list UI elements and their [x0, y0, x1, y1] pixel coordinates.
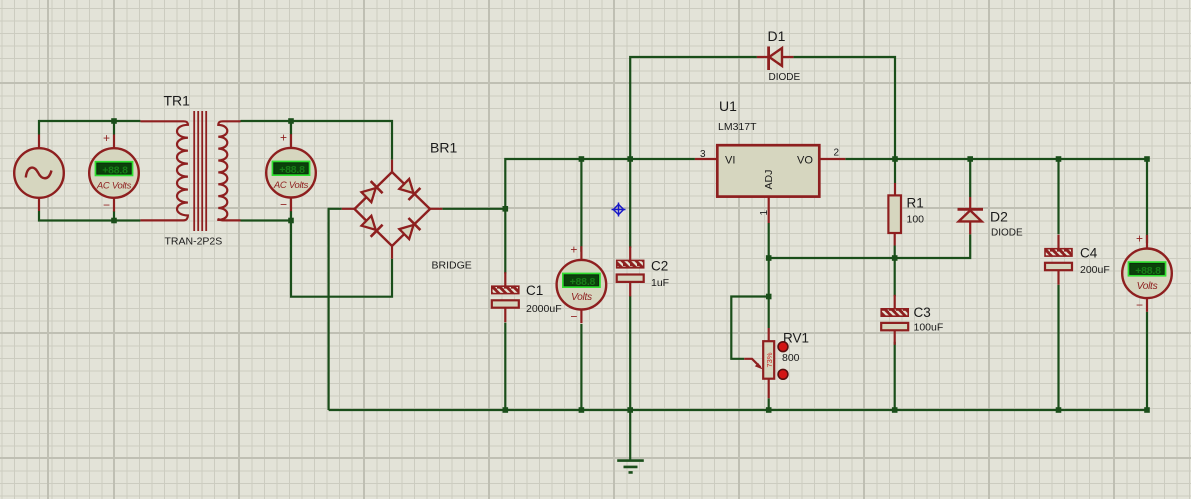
svg-text:200uF: 200uF: [1080, 264, 1110, 276]
svg-text:−: −: [280, 198, 287, 212]
junction: [111, 218, 117, 224]
wire: AC source bottom to transformer primary bottom: [39, 211, 140, 221]
wire: D2 top: [969, 159, 971, 197]
svg-text:VO: VO: [797, 155, 813, 167]
junction: [579, 156, 585, 162]
svg-text:C3: C3: [914, 305, 931, 320]
positive plate (hatched): [881, 309, 908, 316]
wire: ADJ rail to D2 bottom: [769, 234, 971, 258]
svg-text:+: +: [570, 243, 577, 257]
pins: [969, 197, 971, 234]
wire: C4 bottom: [1057, 285, 1059, 410]
junction: [503, 206, 509, 212]
capacitor C1: [492, 272, 562, 322]
LCD readout +88.8: [96, 162, 133, 175]
svg-text:C1: C1: [526, 283, 543, 298]
pin - (bottom): [113, 198, 115, 212]
potentiometer RV1: [744, 328, 809, 398]
body: [717, 145, 819, 196]
diode D2: [958, 197, 1024, 239]
svg-text:C4: C4: [1080, 246, 1098, 261]
pins: [342, 160, 443, 259]
LCD readout +88.8: [273, 162, 310, 175]
bridge diode bottom-right: [398, 218, 420, 240]
junction: [627, 407, 633, 413]
anode triangle: [769, 48, 782, 66]
svg-text:+88.8: +88.8: [570, 276, 596, 288]
svg-text:BR1: BR1: [430, 140, 457, 156]
svg-text:73%: 73%: [765, 352, 774, 367]
junction: [579, 407, 585, 413]
junction: [1056, 156, 1062, 162]
pins: [757, 56, 794, 58]
pin 2 (bottom): [894, 330, 896, 345]
junction: [1056, 407, 1062, 413]
junction: [892, 255, 898, 261]
svg-text:+: +: [103, 131, 110, 145]
pin 2 (bottom): [504, 308, 506, 323]
wire: RV1 bottom: [768, 398, 770, 410]
wire: D1 left loop: [630, 57, 757, 159]
svg-text:100uF: 100uF: [914, 322, 944, 334]
primary winding: [140, 121, 188, 220]
wire: ADJ node down to RV1: [768, 258, 770, 328]
meter body: [1122, 248, 1172, 298]
pin 2 (bottom): [1057, 270, 1059, 285]
positive plate (hatched): [492, 286, 519, 293]
pin 1 (top): [504, 272, 506, 286]
wire: secondary bottom lead: [241, 219, 292, 221]
svg-text:+88.8: +88.8: [279, 164, 305, 176]
svg-text:+88.8: +88.8: [102, 165, 128, 177]
svg-text:+: +: [1136, 231, 1143, 245]
wire: voltmeter PR1 top stub: [113, 121, 115, 135]
svg-text:BRIDGE: BRIDGE: [432, 260, 472, 272]
svg-text:D2: D2: [990, 209, 1008, 225]
svg-text:+: +: [280, 131, 287, 145]
bridge rectifier BR1: [342, 140, 472, 272]
svg-text:3: 3: [700, 149, 706, 160]
core: [194, 111, 206, 231]
wire: DC voltmeter bottom: [580, 324, 582, 410]
svg-text:C2: C2: [651, 259, 668, 274]
pins: [894, 183, 896, 246]
pin + (top): [1146, 235, 1148, 249]
svg-text:DIODE: DIODE: [769, 72, 801, 83]
pin + (top): [580, 246, 582, 260]
svg-text:Volts: Volts: [1137, 281, 1158, 292]
svg-text:−: −: [103, 198, 110, 212]
svg-text:VI: VI: [725, 155, 735, 167]
junction: [967, 156, 973, 162]
wire: top rail left with C1 drop: [505, 159, 695, 274]
svg-text:ADJ: ADJ: [763, 170, 775, 190]
svg-text:100: 100: [907, 214, 925, 226]
svg-text:TRAN-2P2S: TRAN-2P2S: [165, 236, 223, 248]
meter body: [89, 148, 139, 198]
svg-text:−: −: [570, 310, 577, 324]
junction: [627, 156, 633, 162]
LCD readout +88.8: [1129, 262, 1166, 275]
svg-text:U1: U1: [719, 98, 737, 114]
negative plate: [492, 300, 519, 307]
pin - (bottom): [1146, 298, 1148, 312]
wire: voltmeter SEC top stub: [290, 121, 292, 135]
wire: R1 bottom: [894, 246, 896, 259]
pin 1 (top): [894, 295, 896, 309]
resistor R1: [888, 183, 924, 246]
positive plate (hatched): [1045, 249, 1072, 256]
DC voltmeter OUT2: [1122, 231, 1172, 312]
pin 1 (top): [629, 246, 631, 260]
DC voltmeter OUT1: [557, 243, 607, 324]
capacitor C3: [881, 295, 943, 345]
junction: [892, 156, 898, 162]
bridge diode top-left: [360, 181, 382, 203]
pin + (top): [113, 135, 115, 149]
negative plate: [617, 275, 644, 282]
bridge diode bottom-left: [360, 215, 382, 237]
junction: [766, 255, 772, 261]
wire: VM4 bottom: [1146, 312, 1148, 410]
RV1 up indicator: [778, 342, 788, 352]
wire: C4 top: [1057, 159, 1059, 234]
junction: [892, 407, 898, 413]
wire: AC source top to transformer primary top: [39, 121, 140, 135]
wire: R1 top: [894, 159, 896, 183]
pins VI, VO, ADJ: [695, 159, 845, 223]
svg-text:DIODE: DIODE: [991, 228, 1023, 239]
secondary winding: [218, 121, 240, 220]
meter body: [266, 148, 316, 198]
wire: voltmeter PR1 bottom stub: [113, 211, 115, 221]
wire: ADJ pin down: [768, 223, 770, 258]
transformer TR1: [140, 93, 240, 248]
junction: [766, 407, 772, 413]
positive plate (hatched): [617, 260, 644, 267]
regulator U1 LM317T: [695, 98, 845, 223]
svg-text:1uF: 1uF: [651, 277, 669, 289]
AC voltmeter PR1: [89, 131, 139, 212]
RV1 down indicator: [778, 369, 788, 379]
svg-text:TR1: TR1: [164, 93, 191, 109]
junction: [503, 407, 509, 413]
svg-text:AC Volts: AC Volts: [273, 180, 309, 191]
wire: ground stub: [629, 410, 631, 460]
wire: C1 bottom to rail: [504, 323, 506, 410]
svg-text:−: −: [1136, 298, 1143, 312]
wire: D1 right loop: [793, 57, 895, 159]
svg-text:2: 2: [834, 148, 840, 159]
wire: voltmeter SEC bottom to bridge bottom: [291, 211, 392, 297]
wire: secondary top to bridge top: [241, 121, 393, 160]
svg-text:800: 800: [782, 352, 800, 364]
wire: C2 top: [629, 159, 631, 248]
wire: DC voltmeter top: [580, 159, 582, 252]
AC source V1: [14, 135, 64, 212]
pin 1 (top): [1057, 235, 1059, 249]
junction: [288, 218, 294, 224]
pin + (top): [290, 134, 292, 148]
junction: [766, 294, 772, 300]
junction: [288, 118, 294, 124]
crosshair marker: [612, 203, 626, 217]
svg-text:AC Volts: AC Volts: [96, 181, 132, 192]
anode triangle: [959, 210, 982, 221]
negative plate: [881, 323, 908, 330]
svg-text:LM317T: LM317T: [718, 121, 757, 133]
pin - (bottom): [580, 309, 582, 323]
wire: RV1 wiper bracket: [731, 297, 768, 359]
AC voltmeter SEC: [266, 131, 316, 212]
svg-text:Volts: Volts: [571, 292, 592, 303]
capacitor C2: [617, 246, 669, 296]
wire: bottom ground rail: [329, 409, 1147, 411]
negative plate: [1045, 263, 1072, 270]
junction: [1144, 407, 1150, 413]
pin - (bottom): [290, 197, 292, 211]
wire: C3 top: [894, 258, 896, 296]
svg-text:D1: D1: [768, 28, 786, 44]
capacitor C4: [1045, 235, 1110, 285]
wire: bridge right to C1 node: [442, 208, 505, 210]
bridge diode top-right: [398, 178, 420, 200]
ground: [617, 461, 644, 473]
wire: bridge left to ground rail: [329, 209, 342, 410]
wire: C2 bottom: [629, 296, 631, 410]
cathode bar: [958, 208, 984, 211]
junction: [1144, 156, 1150, 162]
wire: C3 bottom: [894, 342, 896, 410]
body: [888, 195, 901, 233]
cathode bar: [767, 47, 770, 71]
svg-text:+88.8: +88.8: [1135, 265, 1161, 277]
junction: [111, 118, 117, 124]
diamond outline: [355, 172, 431, 246]
meter body: [557, 260, 607, 310]
diode D1: [757, 28, 801, 83]
svg-text:2000uF: 2000uF: [526, 303, 562, 315]
LCD readout +88.8: [563, 274, 600, 287]
svg-text:1: 1: [759, 210, 770, 216]
svg-text:R1: R1: [907, 196, 924, 211]
pin 2 (bottom): [629, 282, 631, 297]
wire: top rail right with VM4 drop: [845, 159, 1147, 243]
